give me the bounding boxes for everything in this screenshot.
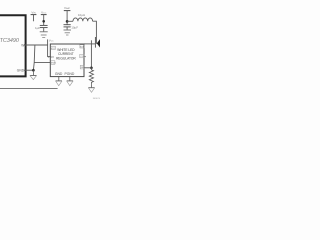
svg-text:PGND: PGND	[65, 72, 75, 76]
svg-text:10µH: 10µH	[78, 13, 85, 17]
svg-text:GND: GND	[55, 72, 63, 76]
svg-text:GND: GND	[17, 68, 25, 72]
svg-text:CO: CO	[80, 56, 84, 58]
svg-text:1µF: 1µF	[35, 26, 40, 30]
svg-text:VCC: VCC	[51, 48, 56, 50]
svg-text:W: W	[21, 43, 24, 47]
svg-text:SHDN: SHDN	[50, 63, 56, 65]
svg-text:TC3490: TC3490	[0, 38, 19, 44]
svg-text:REGULATOR: REGULATOR	[56, 57, 76, 61]
svg-text:4.5V: 4.5V	[48, 55, 54, 59]
svg-text:3490 TA01: 3490 TA01	[93, 97, 100, 100]
svg-text:10µF: 10µF	[71, 25, 78, 29]
